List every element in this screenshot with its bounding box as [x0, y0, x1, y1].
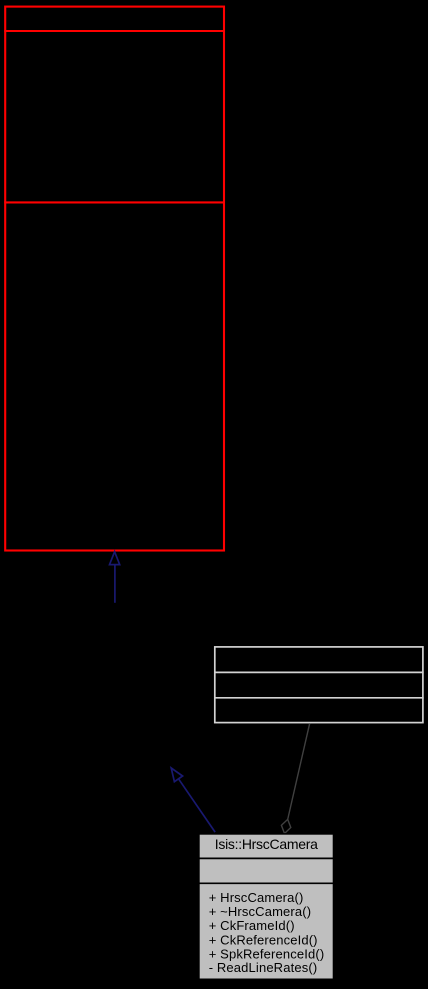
- svg-text:+ ~HrscCamera(): + ~HrscCamera(): [209, 904, 312, 919]
- node: truncated red class box: [4, 7, 225, 551]
- node: Isis::HrscCamera class box: [199, 834, 334, 979]
- methods: [209, 890, 325, 975]
- svg-text:+ HrscCamera(): + HrscCamera(): [209, 890, 304, 905]
- svg-text:+ SpkReferenceId(): + SpkReferenceId(): [209, 946, 325, 961]
- edge: inheritance arrow (vertical, to red box): [110, 552, 120, 603]
- svg-text:- ReadLineRates(): - ReadLineRates(): [209, 960, 318, 975]
- edge: inheritance arrow (diagonal, from Isis::HrscCamera): [171, 768, 215, 832]
- node: light-gray 3-row class box: [214, 647, 424, 723]
- svg-text:+ CkReferenceId(): + CkReferenceId(): [209, 933, 318, 948]
- edge: aggregation (gray line with open diamond): [281, 723, 309, 833]
- svg-text:+ CkFrameId(): + CkFrameId(): [209, 918, 295, 933]
- svg-text:Isis::HrscCamera: Isis::HrscCamera: [215, 836, 318, 852]
